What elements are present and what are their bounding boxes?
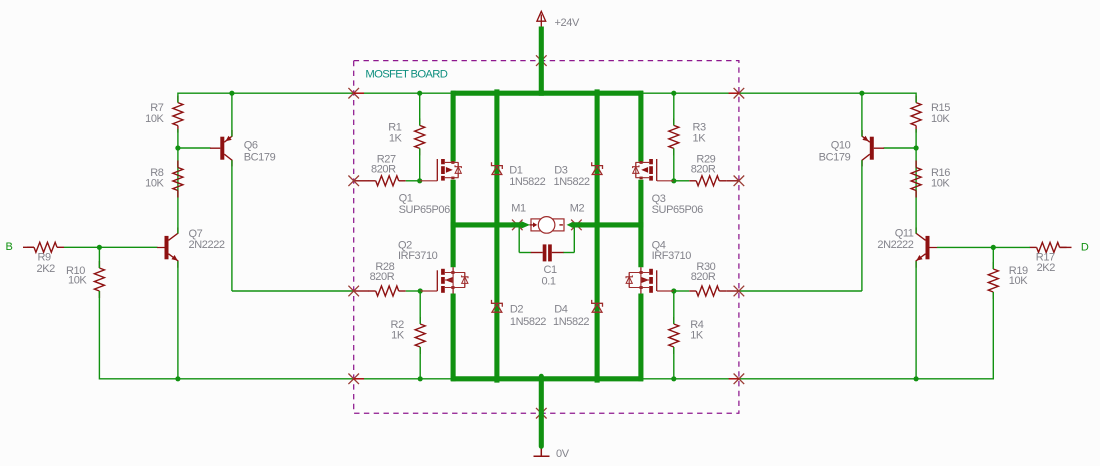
svg-text:D: D — [1081, 241, 1089, 253]
resistor R3 — [669, 125, 679, 148]
svg-text:0.1: 0.1 — [542, 276, 556, 288]
board edge pin cross at 738.9,291 — [734, 286, 745, 297]
wire border to R27 — [354, 180, 369, 182]
junction Q7 emitter at rail — [175, 376, 180, 381]
diode D3 1N5822 — [592, 162, 603, 174]
wire R7 to top rail — [177, 93, 179, 103]
resistor R16 — [911, 168, 921, 191]
svg-text:10K: 10K — [145, 113, 164, 125]
diode D2 1N5822 — [492, 300, 503, 312]
resistor R9 — [34, 242, 57, 252]
wire +24V top rail (thick) — [451, 91, 643, 96]
diode D1 1N5822 — [492, 162, 503, 174]
junction Q3 gate node — [671, 178, 676, 183]
wire gate lead to Q3 — [657, 180, 674, 182]
+24V supply arrow — [537, 11, 546, 27]
resistor R15 — [911, 103, 921, 126]
svg-text:1N5822: 1N5822 — [553, 316, 589, 328]
board edge pin cross at 738.9,180.8 — [734, 176, 745, 187]
wire R10 to bottom rail — [98, 247, 100, 268]
transistor Q10 BC179 — [862, 130, 884, 166]
junction Q4 gate node — [671, 288, 676, 293]
diode D4 1N5822 — [592, 300, 603, 312]
resistor R30 — [696, 286, 719, 296]
wire Q6 collector down and to R28 — [231, 160, 233, 291]
svg-text:820R: 820R — [691, 271, 716, 283]
svg-text:1K: 1K — [389, 133, 403, 145]
wire Q10 emitter to top rail — [861, 93, 863, 136]
wire gate lead to Q4 — [657, 290, 674, 292]
svg-text:2N2222: 2N2222 — [877, 239, 913, 251]
wire Q7 emitter to bottom rail — [177, 261, 179, 379]
junction Q6 emitter at top rail — [229, 91, 234, 96]
resistor R8 — [173, 168, 183, 191]
wire Q11 emitter to bottom rail — [915, 261, 917, 379]
svg-text:2K2: 2K2 — [37, 263, 56, 275]
wire R27 right to Q1 gate node — [406, 180, 420, 182]
svg-text:820R: 820R — [370, 271, 395, 283]
svg-text:SUP65P06: SUP65P06 — [652, 204, 704, 216]
wire gate lead to Q1 — [420, 180, 438, 182]
resistor R1 — [415, 125, 425, 148]
board edge pin cross at +24V entry — [536, 55, 547, 66]
ground symbol 0V — [534, 448, 550, 456]
junction Q11 emitter at rail — [914, 376, 919, 381]
resistor R19 — [988, 269, 998, 292]
node D1n junction — [991, 245, 996, 250]
board edge pin cross at 353.7,93.2 — [348, 88, 359, 99]
wire Q6 emitter to top rail — [231, 93, 233, 136]
wire R17 to node D1n — [937, 246, 1030, 248]
svg-text:820R: 820R — [371, 163, 396, 175]
junction Q10 emitter at top rail — [859, 91, 864, 96]
wire R7/R8 node to Q6 base — [177, 129, 179, 148]
motor M body — [531, 219, 564, 231]
board edge pin cross at 738.9,378.8 — [734, 374, 745, 385]
wire R4 to bottom rail — [673, 291, 675, 324]
transistor Q4 IRF3710 (N-MOSFET, mirrored) — [626, 267, 657, 293]
wire left outer bar top segment (Q1 source to +24V) — [451, 91, 456, 162]
wire right outer bar bottom segment (Q4 source to 0V) — [638, 294, 643, 382]
wire R29 left to Q3 gate node — [674, 180, 689, 182]
svg-text:0V: 0V — [556, 448, 570, 460]
svg-text:M1: M1 — [511, 202, 526, 214]
svg-text:D2: D2 — [510, 304, 524, 316]
wire 0V bottom rail (thick) — [451, 376, 643, 381]
resistor R4 — [669, 324, 679, 347]
wire bottom rail thin (right side) — [641, 378, 993, 380]
node B1 junction — [97, 245, 102, 250]
red pin stub top-left rail crossing — [354, 92, 364, 94]
board edge pin cross at 353.7,291 — [348, 286, 359, 297]
svg-text:M2: M2 — [570, 203, 585, 215]
svg-text:IRF3710: IRF3710 — [398, 250, 438, 262]
svg-text:820R: 820R — [691, 163, 716, 175]
svg-text:10K: 10K — [68, 275, 87, 287]
capacitor C1 plates — [543, 244, 547, 261]
wire R15/R16 node to Q10 base — [915, 129, 917, 148]
junction Q2 gate node — [418, 288, 423, 293]
wire R19 to bottom rail — [992, 247, 994, 269]
wire motor right terminal to C1 — [573, 226, 575, 253]
transistor Q1 SUP65P06 (P-MOSFET) — [437, 159, 461, 181]
transistor Q6 BC179 — [210, 130, 232, 166]
wire border to R30 — [726, 290, 739, 292]
wire R28 right to Q2 gate node — [406, 290, 421, 292]
svg-text:1K: 1K — [690, 329, 704, 341]
svg-text:Q3: Q3 — [652, 193, 666, 205]
wire 0V stub (thick) — [539, 376, 544, 446]
svg-text:MOSFET BOARD: MOSFET BOARD — [365, 68, 447, 80]
resistor R27 — [376, 176, 399, 186]
svg-text:Q1: Q1 — [399, 193, 413, 205]
svg-text:+24V: +24V — [555, 17, 580, 29]
wire +24V stub (thick) — [539, 27, 544, 96]
wire motor row left (thick) — [451, 222, 522, 227]
resistor R28 — [376, 286, 399, 296]
wire top rail thin (left side) — [178, 92, 453, 94]
wire Q10 collector down and to R30 — [861, 160, 863, 291]
svg-text:D3: D3 — [554, 164, 568, 176]
wire left outer bar bottom segment (Q2 source to 0V) — [451, 294, 456, 382]
svg-text:1N5822: 1N5822 — [509, 176, 545, 188]
svg-text:C1: C1 — [544, 264, 558, 276]
resistor R2 — [415, 324, 425, 347]
svg-text:10K: 10K — [931, 178, 950, 190]
wire R30 left to Q4 gate node — [674, 290, 689, 292]
wire R1 to top rail — [419, 93, 421, 125]
svg-text:2K2: 2K2 — [1037, 262, 1056, 274]
svg-text:2N2222: 2N2222 — [189, 239, 225, 251]
junction R1 at top rail — [417, 91, 422, 96]
svg-text:10K: 10K — [145, 178, 164, 190]
svg-text:1N5822: 1N5822 — [554, 176, 590, 188]
svg-text:1K: 1K — [391, 329, 405, 341]
svg-text:BC179: BC179 — [244, 151, 276, 163]
wire B to R9 — [23, 246, 34, 248]
svg-text:Q6: Q6 — [244, 140, 258, 152]
resistor R29 — [696, 176, 719, 186]
svg-text:SUP65P06: SUP65P06 — [399, 204, 451, 216]
wire right inner bar (D3/D4 column) — [595, 89, 600, 382]
red pin stub bottom-left rail crossing — [354, 378, 364, 380]
motor polarity mark - — [559, 224, 563, 226]
board edge pin cross at 0V exit — [536, 408, 547, 419]
svg-text:IRF3710: IRF3710 — [652, 250, 692, 262]
resistor R7 — [173, 103, 183, 126]
wire arrow into motor M2 terminal — [567, 221, 575, 228]
red pin stub bottom-right rail crossing — [729, 378, 739, 380]
wire D to R17 — [1060, 246, 1072, 248]
board edge pin cross at 353.7,378.8 — [348, 374, 359, 385]
wire right outer bar middle segment (Q3 drain to Q4 drain, motor right node) — [638, 180, 643, 267]
red pin stub top-right rail crossing — [729, 92, 739, 94]
wire R15 to top rail — [915, 93, 917, 103]
wire left outer bar middle segment (Q1 drain to Q2 drain, motor left node) — [451, 180, 456, 267]
transistor Q3 SUP65P06 (P-MOSFET, mirrored) — [633, 159, 657, 181]
svg-text:BC179: BC179 — [819, 151, 851, 163]
svg-text:10K: 10K — [931, 113, 950, 125]
wire bottom rail thin (left side) — [99, 378, 453, 380]
svg-text:D1: D1 — [509, 164, 523, 176]
svg-text:10K: 10K — [1009, 275, 1028, 287]
transistor Q2 IRF3710 (N-MOSFET) — [437, 267, 468, 293]
resistor R17 — [1037, 242, 1060, 252]
svg-text:R9: R9 — [38, 251, 52, 263]
wire right outer bar top segment (Q3 source to +24V) — [638, 91, 643, 162]
wire gate lead to Q2 — [420, 290, 437, 292]
wire R3 to top rail — [673, 93, 675, 125]
svg-text:B: B — [6, 241, 13, 253]
wire left inner bar (D1/D2 column) — [494, 89, 499, 382]
junction R4 at bottom rail — [671, 376, 676, 381]
motor pin M1 lead and arrow — [530, 224, 534, 226]
wire motor left terminal to C1 — [518, 226, 520, 253]
wire Q7 collector to R8 — [177, 148, 179, 234]
svg-text:Q11: Q11 — [895, 228, 914, 240]
wire arrow into motor M1 terminal — [521, 221, 530, 228]
junction R15 R16 Q10 base — [914, 145, 919, 150]
transistor Q11 2N2222 — [916, 228, 937, 268]
svg-text:1N5822: 1N5822 — [510, 316, 546, 328]
pin M2 connection cross — [571, 220, 582, 231]
junction R3 at top rail — [671, 91, 676, 96]
wire R2 to bottom rail — [419, 291, 421, 324]
wire Q11 collector to R16 — [915, 148, 917, 234]
resistor R10 — [94, 268, 104, 291]
svg-text:1K: 1K — [693, 133, 707, 145]
junction R2 at bottom rail — [418, 376, 423, 381]
wire border to R29 — [726, 180, 739, 182]
pin M1 connection cross — [512, 220, 523, 231]
junction R7 R8 Q6 base — [175, 145, 180, 150]
svg-text:D4: D4 — [554, 304, 568, 316]
dashed outline MOSFET BOARD — [354, 61, 739, 414]
wire R9 to node B1 — [64, 246, 158, 248]
wire motor row right (thick) — [574, 222, 644, 227]
board edge pin cross at 738.9,93.2 — [734, 88, 745, 99]
svg-text:Q10: Q10 — [831, 140, 851, 152]
junction Q1 gate node — [417, 178, 422, 183]
wire border to R28 — [354, 290, 369, 292]
transistor Q7 2N2222 — [157, 228, 178, 268]
wire top rail thin (right side) — [641, 92, 916, 94]
board edge pin cross at 353.7,180.8 — [348, 176, 359, 187]
